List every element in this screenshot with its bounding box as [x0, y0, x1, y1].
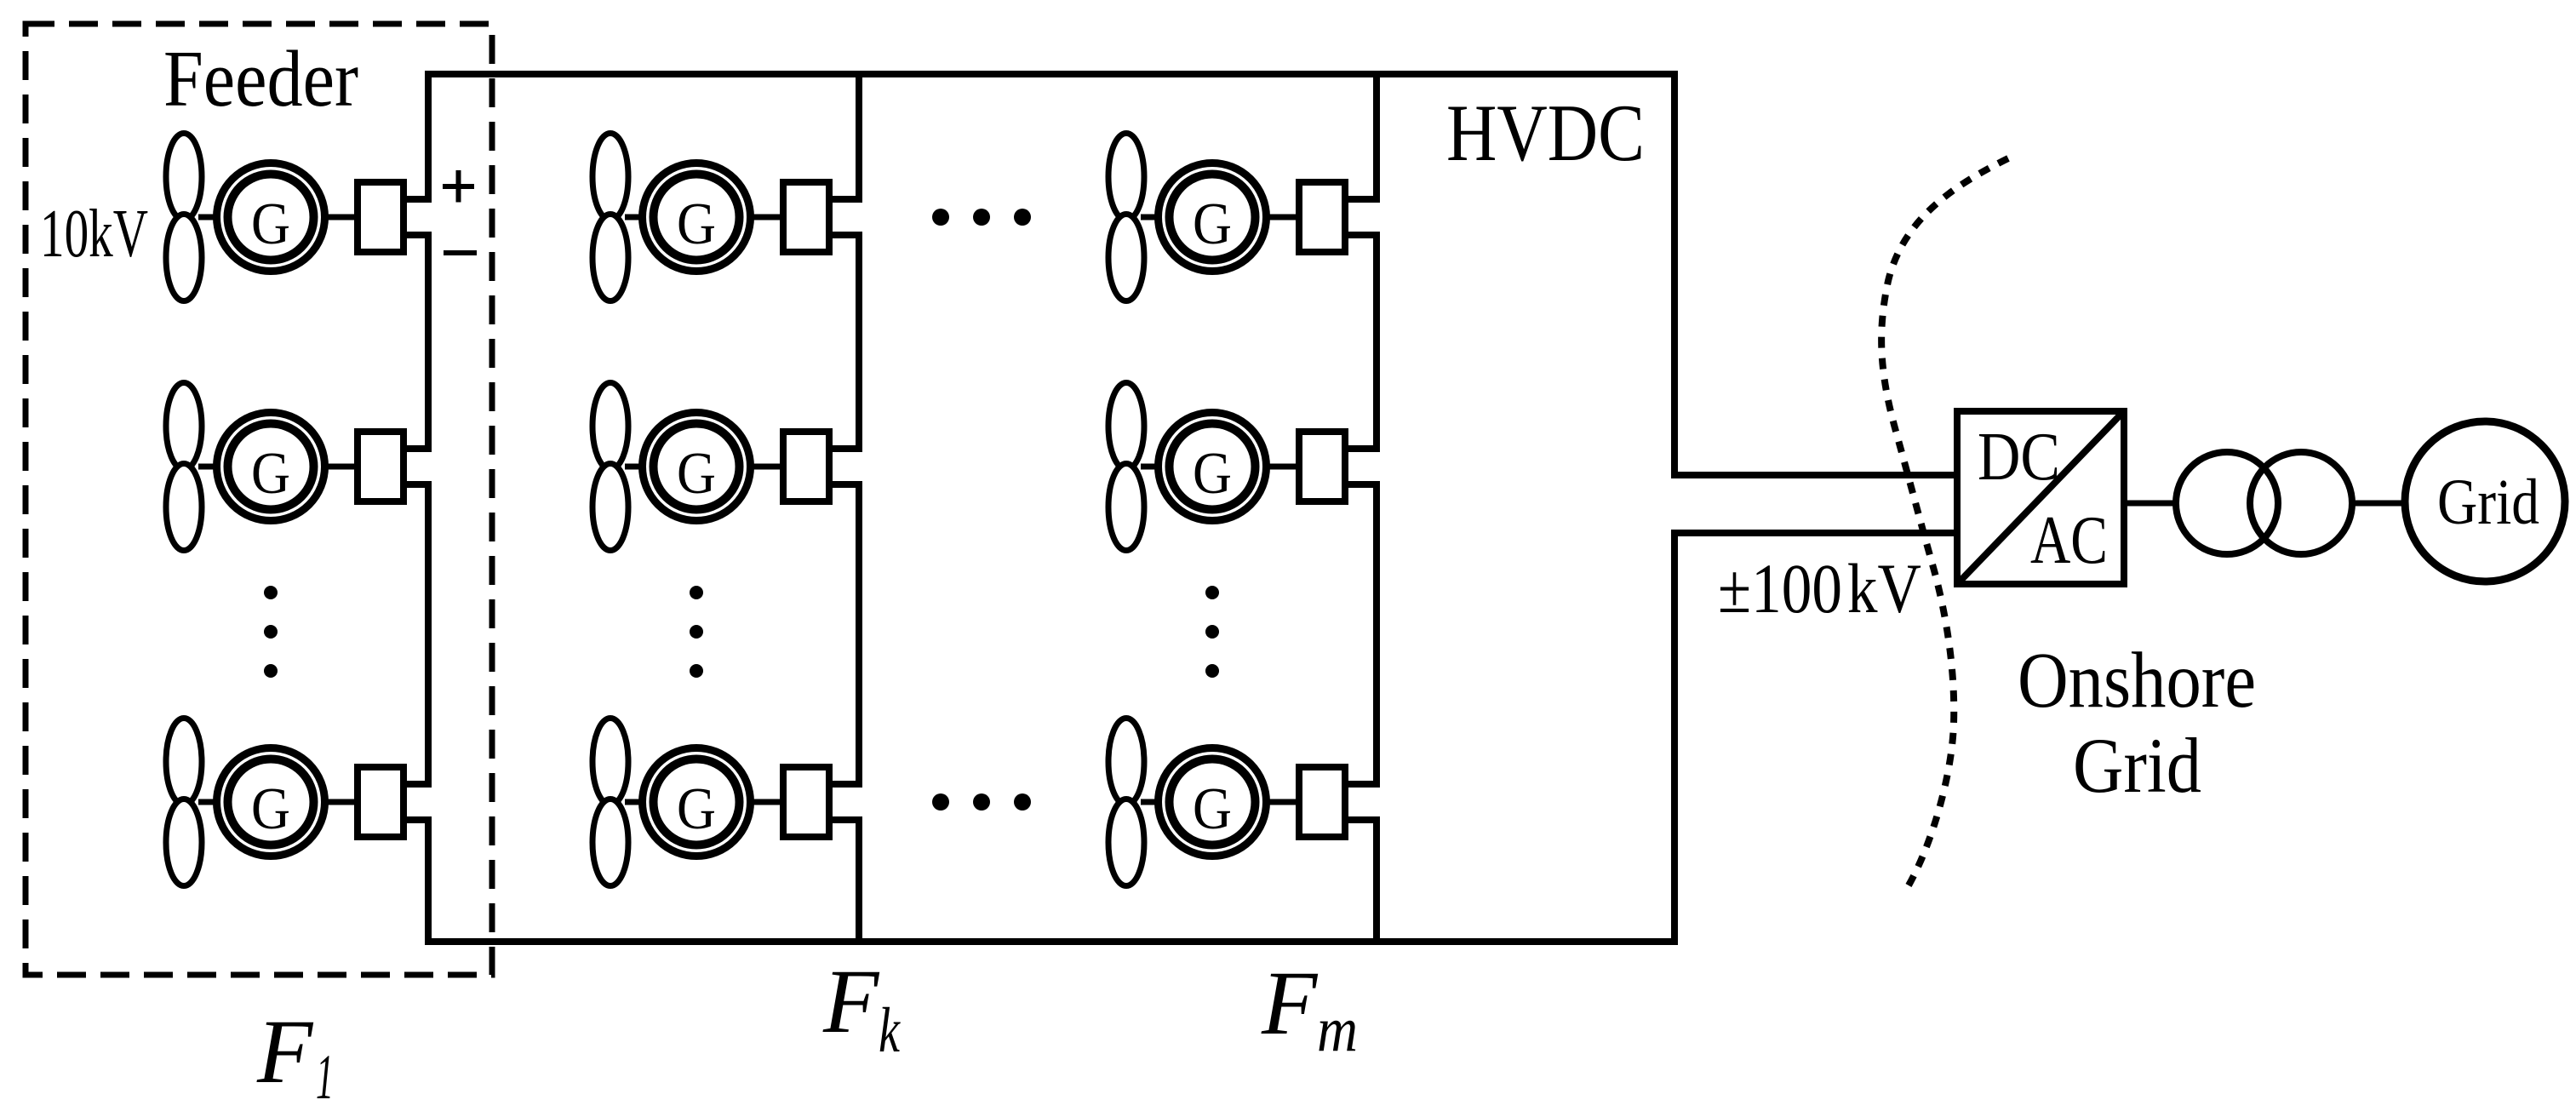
value label 10kV: [40, 195, 148, 272]
wire Fk bus segment row3 - to bottom line: [856, 816, 862, 942]
wire F1 bus segment row1 - to row2 +: [425, 232, 432, 452]
wire converter + terminal to bus (Fk row 2): [829, 445, 862, 452]
node continuation dots (vertical) feeder F1: [264, 586, 278, 678]
wire converter + terminal to bus (F1 row 1): [404, 196, 432, 203]
wire shaft (F1 row 2): [198, 464, 361, 470]
wire converter - terminal to bus (F1 row 3): [404, 816, 432, 823]
svg-text:G: G: [251, 441, 290, 507]
wire converter - terminal to bus (Fm row 3): [1345, 816, 1380, 823]
wire converter + terminal to bus (F1 row 3): [404, 781, 432, 788]
shoreline dashed curve: [1881, 158, 2008, 885]
node continuation dots (vertical) feeder Fk: [690, 586, 703, 678]
wind turbine blades (F1 row 1): [166, 134, 202, 301]
wire shaft (Fm row 3): [1141, 799, 1302, 805]
svg-text:m: m: [1317, 994, 1358, 1065]
converter (Fk row 1): [783, 182, 829, 252]
wire HVDC positive line to DC/AC converter: [1671, 472, 1957, 478]
converter (Fm row 1): [1299, 182, 1345, 252]
DC/AC converter U1 (onshore station): [1957, 411, 2124, 584]
wire converter + terminal to bus (Fk row 1): [829, 196, 862, 203]
wire shaft (Fm row 2): [1141, 464, 1302, 470]
wire converter - terminal to bus (F1 row 1): [404, 232, 432, 238]
wire transformer to grid: [2350, 501, 2408, 507]
svg-text:G: G: [677, 776, 716, 842]
wire converter - terminal to bus (Fm row 2): [1345, 481, 1380, 488]
wire Fk bus segment row2 - to row3 +: [856, 481, 862, 788]
svg-text:Grid: Grid: [2437, 467, 2539, 538]
svg-text:HVDC: HVDC: [1446, 88, 1645, 178]
wind turbine blades (Fm row 2): [1108, 383, 1144, 551]
generator G (Fk row 3): [643, 748, 751, 856]
svg-text:Onshore: Onshore: [2018, 637, 2256, 725]
transformer T1: [2176, 452, 2352, 554]
wire converter + terminal to bus (F1 row 2): [404, 445, 432, 452]
wire converter + terminal to bus (Fm row 2): [1345, 445, 1380, 452]
generator G (Fk row 1): [643, 163, 751, 272]
generator G (Fm row 1): [1159, 163, 1267, 272]
converter (F1 row 2): [358, 432, 404, 501]
wire F1 bus segment top line to row1 +: [425, 74, 432, 203]
wind turbine blades (Fm row 3): [1108, 719, 1144, 886]
wind turbine blades (Fm row 1): [1108, 134, 1144, 301]
wire converter + terminal to bus (Fm row 1): [1345, 196, 1380, 203]
converter (Fm row 2): [1299, 432, 1345, 501]
wire DC/AC converter to transformer: [2124, 501, 2179, 507]
svg-text:F: F: [822, 952, 880, 1052]
polarity label -: [444, 250, 477, 255]
svg-text:AC: AC: [2030, 501, 2108, 578]
converter (F1 row 3): [358, 767, 404, 837]
wire Fm bus segment row3 - to bottom line: [1373, 816, 1380, 942]
wire converter - terminal to bus (Fm row 1): [1345, 232, 1380, 238]
generator G (Fm row 2): [1159, 413, 1267, 521]
converter (Fm row 3): [1299, 767, 1345, 837]
svg-text:±100 kV: ±100 kV: [1718, 549, 1921, 627]
converter (Fk row 3): [783, 767, 829, 837]
wind turbine blades (F1 row 3): [166, 719, 202, 886]
wire Fm bus segment top line to row1 +: [1373, 74, 1380, 203]
wire F1 bus segment row3 - to bottom line: [425, 816, 432, 942]
svg-text:Grid: Grid: [2073, 722, 2201, 809]
svg-text:F: F: [256, 1002, 314, 1103]
wire HVDC negative line to DC/AC converter: [1671, 530, 1957, 536]
converter (F1 row 1): [358, 182, 404, 252]
polarity label +: [443, 170, 474, 203]
wire top DC bus (positive pole): [425, 71, 1678, 77]
generator G (F1 row 3): [217, 748, 325, 856]
node continuation dots (vertical) feeder Fm: [1205, 586, 1219, 678]
wire converter - terminal to bus (F1 row 2): [404, 481, 432, 488]
svg-text:Feeder: Feeder: [163, 35, 358, 123]
wire shaft (Fk row 2): [625, 464, 787, 470]
wire converter + terminal to bus (Fk row 3): [829, 781, 862, 788]
wire shaft (F1 row 1): [198, 215, 361, 221]
wire Fk bus segment row1 - to row2 +: [856, 232, 862, 452]
wire shaft (Fm row 1): [1141, 215, 1302, 221]
generator G (F1 row 1): [217, 163, 325, 272]
svg-text:G: G: [677, 441, 716, 507]
wire right vertical negative pole: [1671, 530, 1678, 945]
node label Fm: [1261, 954, 1358, 1065]
wire bottom DC bus (negative pole): [425, 938, 1678, 945]
wind turbine blades (Fk row 2): [592, 383, 628, 551]
wire shaft (Fk row 3): [625, 799, 787, 805]
svg-text:G: G: [251, 192, 290, 257]
generator G (Fk row 2): [643, 413, 751, 521]
grid source node: [2405, 421, 2565, 581]
svg-text:k: k: [879, 995, 901, 1066]
node label Fk: [822, 952, 901, 1066]
generator G (Fm row 3): [1159, 748, 1267, 856]
wire Fm bus segment row1 - to row2 +: [1373, 232, 1380, 452]
generator G (F1 row 2): [217, 413, 325, 521]
node continuation dots (horizontal, bottom row) between Fk and Fm: [932, 793, 1031, 811]
wind turbine blades (Fk row 1): [592, 134, 628, 301]
svg-text:DC: DC: [1978, 418, 2060, 495]
wind turbine blades (Fk row 3): [592, 719, 628, 886]
wire Fm bus segment row2 - to row3 +: [1373, 481, 1380, 788]
wire shaft (Fk row 1): [625, 215, 787, 221]
wire converter - terminal to bus (Fk row 2): [829, 481, 862, 488]
wire shaft (F1 row 3): [198, 799, 361, 805]
svg-text:G: G: [677, 192, 716, 257]
svg-text:G: G: [1193, 776, 1232, 842]
wire converter - terminal to bus (Fk row 1): [829, 232, 862, 238]
svg-text:G: G: [1193, 441, 1232, 507]
svg-text:1: 1: [316, 1042, 334, 1113]
node continuation dots (horizontal, top row) between Fk and Fm: [932, 209, 1031, 226]
svg-text:G: G: [251, 776, 290, 842]
label Feeder: [163, 35, 358, 123]
wire right vertical positive pole: [1671, 71, 1678, 478]
wire F1 bus segment row2 - to row3 +: [425, 481, 432, 788]
svg-text:F: F: [1261, 954, 1319, 1054]
svg-text:10kV: 10kV: [40, 195, 148, 272]
wind turbine blades (F1 row 2): [166, 383, 202, 551]
label HVDC: [1446, 88, 1645, 178]
wire converter + terminal to bus (Fm row 3): [1345, 781, 1380, 788]
node label F1: [256, 1002, 334, 1113]
converter (Fk row 2): [783, 432, 829, 501]
label Onshore Grid: [2018, 637, 2256, 809]
wire Fk bus segment top line to row1 +: [856, 74, 862, 203]
value label +/-100 kV: [1718, 549, 1921, 627]
svg-text:G: G: [1193, 192, 1232, 257]
feeder F1 boundary dashed box: [26, 24, 492, 975]
wire converter - terminal to bus (Fk row 3): [829, 816, 862, 823]
